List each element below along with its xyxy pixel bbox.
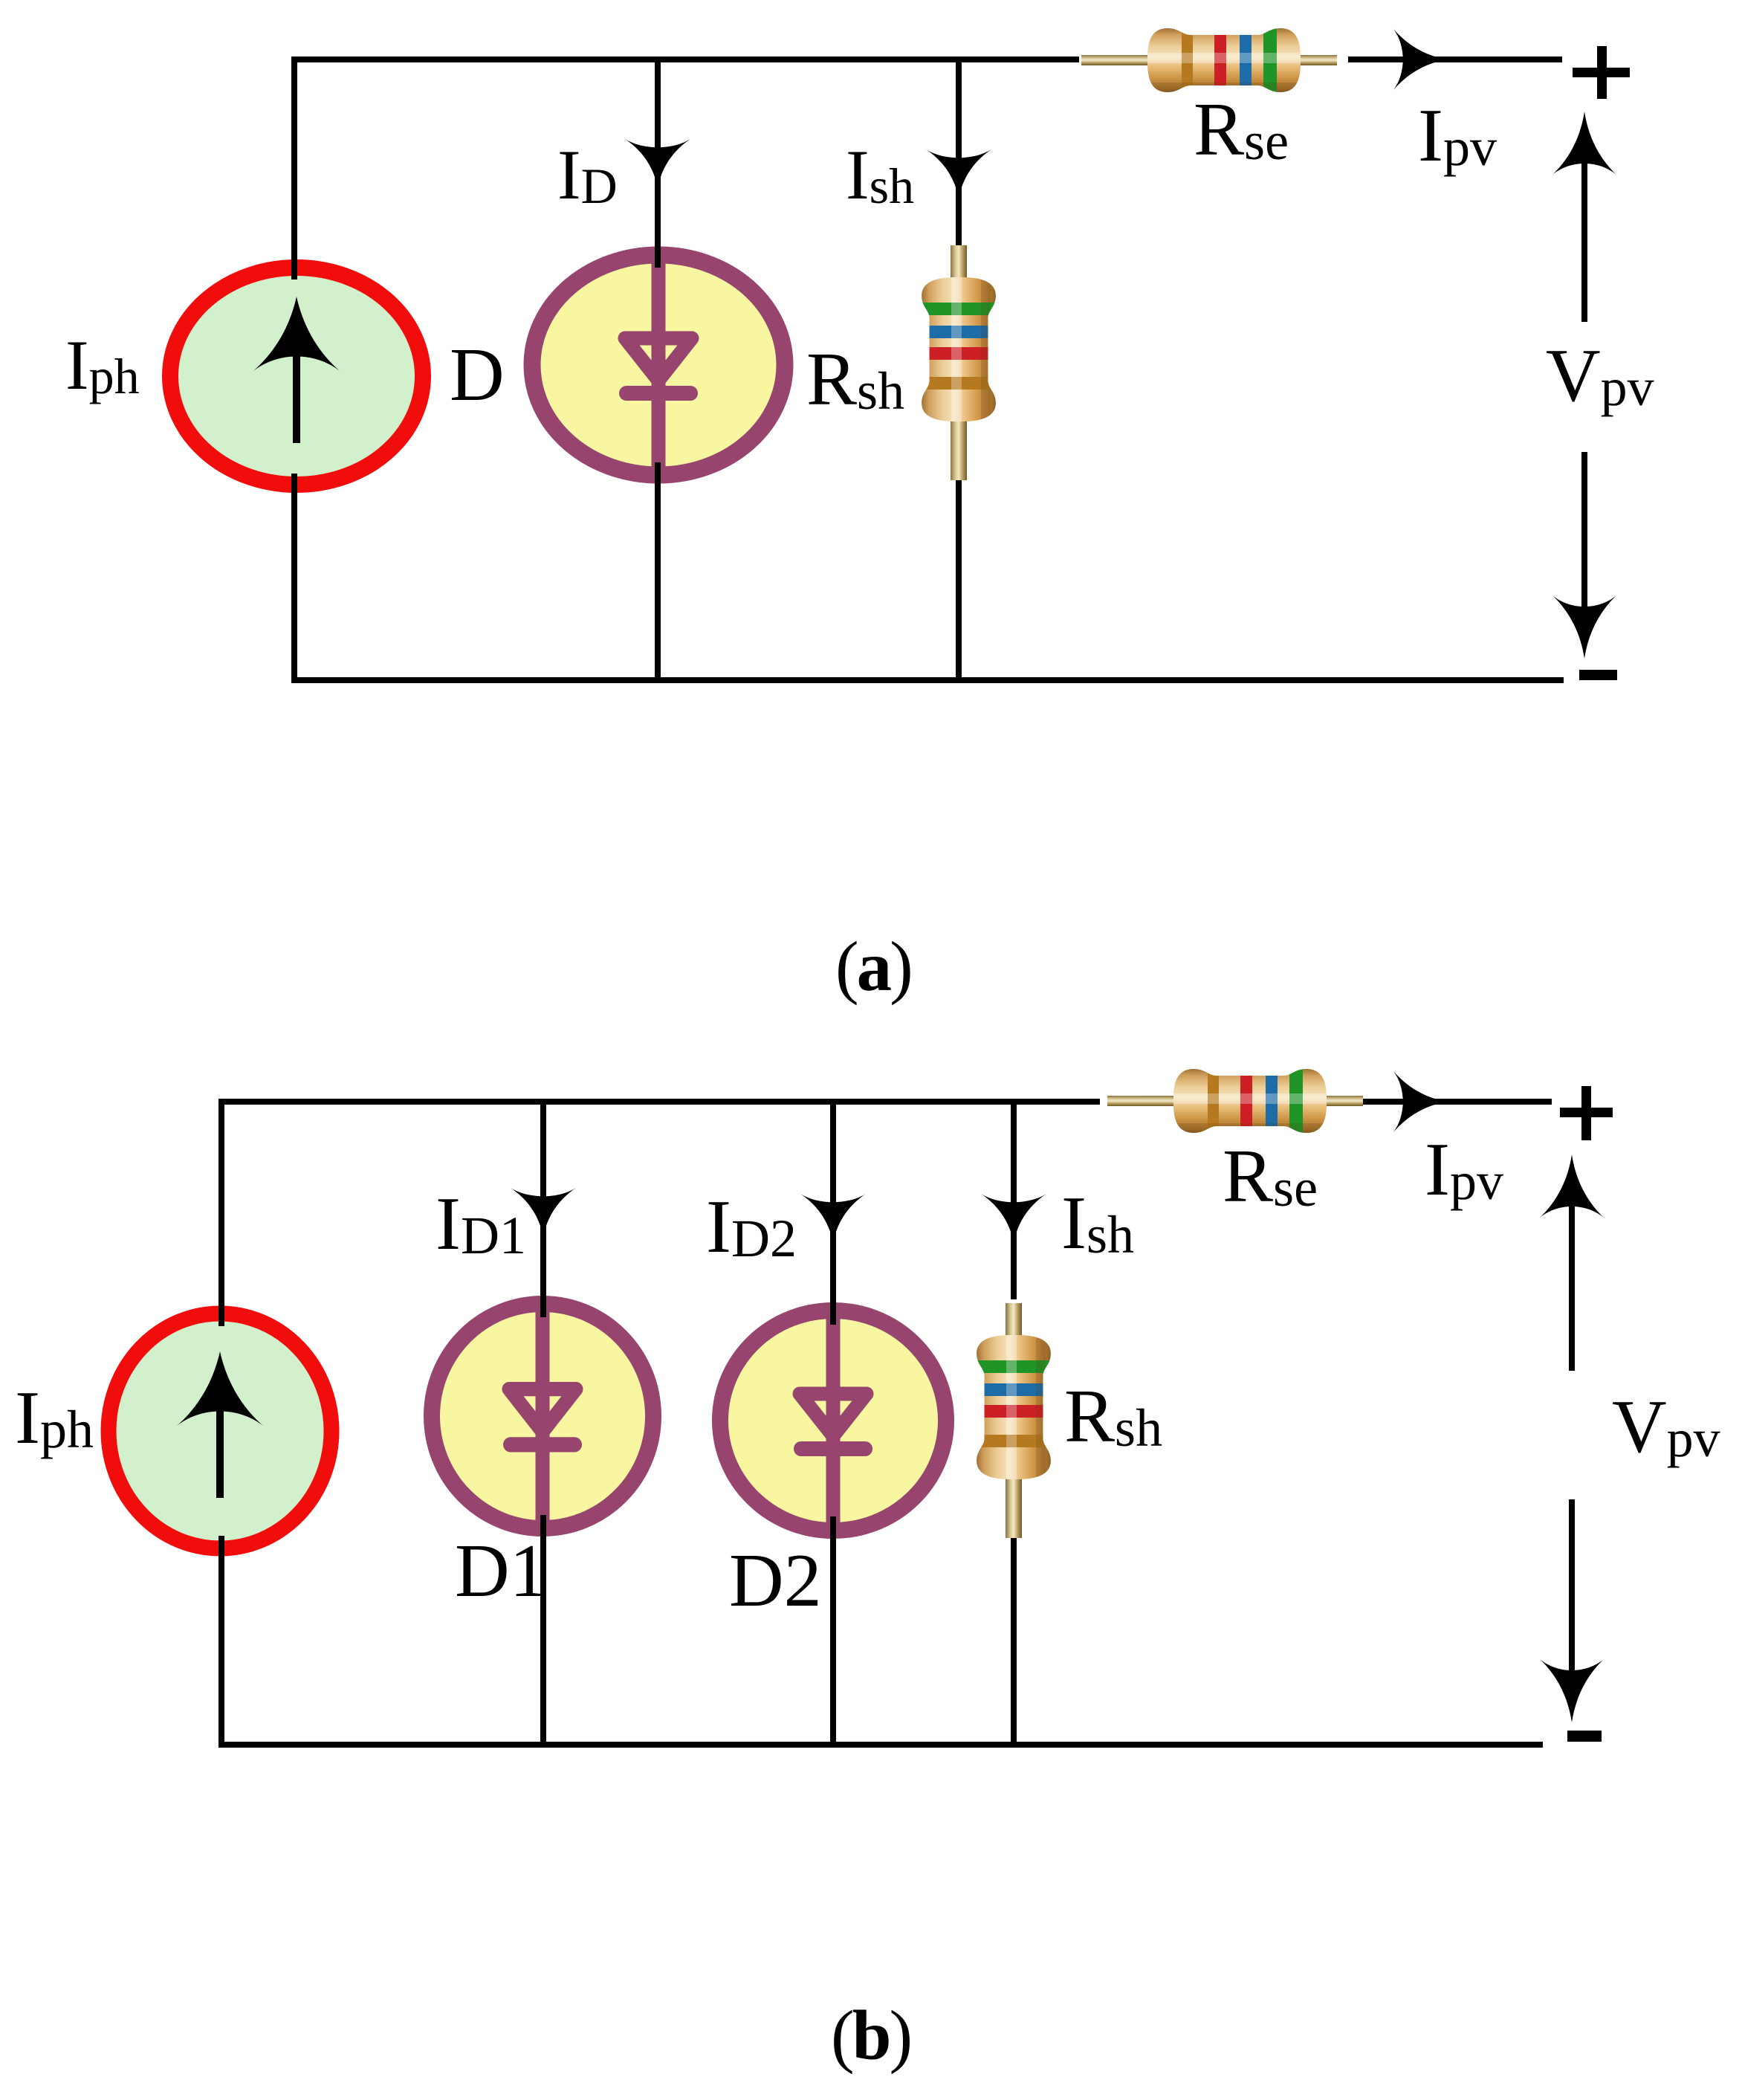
arrow Ipv (a) xyxy=(1393,29,1447,90)
wire: left branch (a) xyxy=(291,59,297,277)
svg-text:ID2: ID2 xyxy=(706,1185,797,1269)
diode D2 (b) xyxy=(720,1309,946,1532)
wire: top node (a) xyxy=(294,56,1559,62)
circuit (a): single-diode PV model xyxy=(65,7,1654,680)
resistor Rsh (a) xyxy=(920,245,997,480)
resistor Rse (a) xyxy=(1079,7,1348,113)
arrow Vpv down (b) xyxy=(1569,1502,1575,1691)
current source Iph (b) xyxy=(109,1314,331,1548)
arrow Vpv up (b) xyxy=(1569,1188,1575,1368)
wire: bottom node (b) xyxy=(221,1742,1540,1748)
svg-text:(b): (b) xyxy=(831,1996,910,2075)
resistor Rsh (b) xyxy=(975,1303,1052,1538)
wire: D1 branch (b) xyxy=(540,1102,546,1314)
minus terminal (b) xyxy=(1567,1731,1602,1742)
svg-text:Ish: Ish xyxy=(1061,1181,1134,1265)
svg-text:Rsh: Rsh xyxy=(806,337,904,421)
arrow Vpv up (a) xyxy=(1581,145,1587,319)
current source Iph (a) xyxy=(170,268,423,485)
svg-text:Vpv: Vpv xyxy=(1612,1385,1720,1469)
svg-text:Ish: Ish xyxy=(846,135,914,214)
wire: left branch (b) xyxy=(218,1102,224,1323)
arrow Ish (b) xyxy=(981,1194,1046,1243)
svg-text:Ipv: Ipv xyxy=(1425,1128,1503,1212)
svg-text:(a): (a) xyxy=(835,927,911,1006)
wire: shunt branch (a) xyxy=(956,59,962,248)
diode D1 (b) xyxy=(432,1304,653,1529)
wire: shunt branch (b) xyxy=(1011,1102,1017,1296)
svg-text:Ipv: Ipv xyxy=(1418,94,1497,178)
resistor Rse (b) xyxy=(1100,1049,1363,1154)
wire: diode branch (a) xyxy=(655,59,661,265)
wire: D2 branch (b) xyxy=(830,1102,836,1322)
svg-text:Rsh: Rsh xyxy=(1064,1374,1162,1458)
minus terminal (a) xyxy=(1579,670,1617,680)
svg-text:D: D xyxy=(450,333,505,417)
svg-text:D1: D1 xyxy=(455,1529,548,1613)
diode D (a) xyxy=(532,253,785,476)
arrow Vpv down (a) xyxy=(1581,455,1587,628)
arrow ID2 (b) xyxy=(800,1194,866,1243)
plus terminal (a) xyxy=(1573,46,1630,99)
svg-text:Iph: Iph xyxy=(15,1376,94,1460)
wire: top node (b) xyxy=(221,1099,1549,1105)
circuit (b): double-diode PV model xyxy=(15,1049,1720,1745)
arrow Ish (a) xyxy=(926,149,991,198)
svg-text:Vpv: Vpv xyxy=(1546,334,1654,418)
plus terminal (b) xyxy=(1560,1086,1613,1140)
svg-text:Iph: Iph xyxy=(65,326,140,404)
svg-text:D2: D2 xyxy=(729,1539,822,1623)
svg-text:ID1: ID1 xyxy=(435,1182,526,1266)
wire: bottom node (a) xyxy=(294,677,1561,683)
svg-text:ID: ID xyxy=(557,135,618,214)
arrow ID (a) xyxy=(625,139,690,188)
arrow ID1 (b) xyxy=(511,1188,576,1237)
arrow Ipv (b) xyxy=(1393,1071,1447,1132)
